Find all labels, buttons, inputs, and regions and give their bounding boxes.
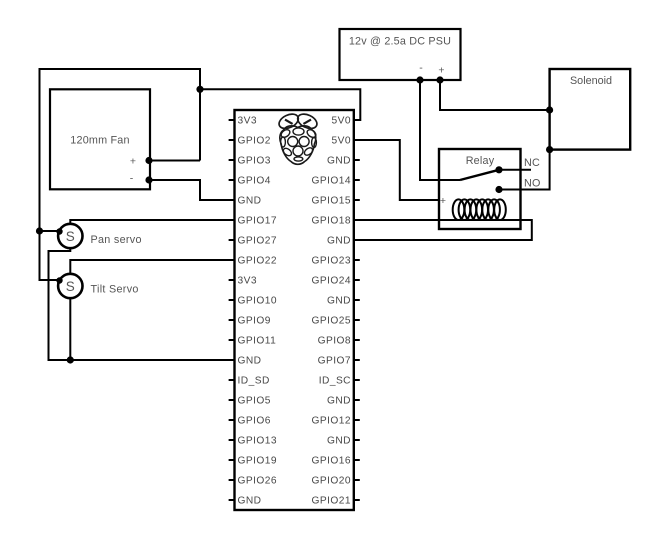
left pin stubs — [229, 120, 235, 500]
svg-text:GPIO19: GPIO19 — [238, 456, 278, 467]
svg-text:Relay: Relay — [466, 155, 495, 167]
svg-text:Tilt Servo: Tilt Servo — [91, 284, 139, 296]
svg-text:GND: GND — [327, 396, 351, 407]
right pin stubs — [354, 120, 360, 500]
junction fan minus — [145, 176, 152, 183]
Pan servo — [58, 224, 142, 248]
svg-text:GPIO5: GPIO5 — [238, 396, 271, 407]
svg-text:ID_SC: ID_SC — [319, 376, 351, 387]
svg-text:GPIO10: GPIO10 — [238, 296, 278, 307]
junction PSU plus — [436, 76, 443, 83]
wire 5V0 pin 2 to relay coil plus — [354, 140, 440, 200]
svg-text:GPIO2: GPIO2 — [238, 136, 271, 147]
svg-text:GND: GND — [238, 496, 262, 507]
junction PSU minus — [416, 76, 423, 83]
wire 5V net: fan+ up, across top, down left side to servos — [40, 69, 201, 280]
svg-text:S: S — [66, 229, 75, 244]
svg-text:GPIO20: GPIO20 — [311, 476, 351, 487]
svg-text:GPIO9: GPIO9 — [238, 316, 271, 327]
svg-text:GND: GND — [327, 156, 351, 167]
junction on left 5V wire — [36, 227, 43, 234]
Solenoid box — [550, 69, 631, 150]
svg-text:NC: NC — [524, 157, 540, 169]
relay switch lever — [460, 170, 499, 180]
svg-text:GND: GND — [238, 356, 262, 367]
raspberry pi logo — [277, 111, 319, 164]
wire PSU minus to relay common — [420, 80, 460, 180]
Tilt servo — [58, 274, 139, 298]
Relay box — [439, 149, 521, 229]
svg-text:GPIO22: GPIO22 — [238, 256, 278, 267]
wire fan plus to 5V net — [149, 160, 200, 162]
wire relay NO to solenoid bottom — [499, 150, 550, 190]
wire branch from 5V net to 5V0 pin 1 — [200, 89, 360, 120]
svg-text:+: + — [130, 155, 136, 167]
svg-text:GPIO23: GPIO23 — [311, 256, 351, 267]
wire Pan servo signal to GPIO17 — [70, 220, 234, 224]
relay coil — [453, 199, 506, 220]
svg-text:S: S — [66, 279, 75, 294]
svg-text:+: + — [440, 195, 446, 207]
svg-text:GPIO13: GPIO13 — [238, 436, 278, 447]
svg-text:5V0: 5V0 — [332, 136, 351, 147]
120mm Fan box — [50, 89, 150, 189]
wire Tilt servo signal to GPIO22 — [70, 260, 234, 274]
junction servo grounds — [67, 356, 74, 363]
svg-text:GPIO21: GPIO21 — [311, 496, 351, 507]
svg-text:3V3: 3V3 — [238, 276, 257, 287]
svg-text:-: - — [130, 173, 134, 185]
svg-text:GPIO11: GPIO11 — [238, 336, 277, 347]
wire GPIO18 through relay coil to GND — [354, 220, 532, 240]
wire relay NC stub — [499, 169, 531, 171]
svg-text:NO: NO — [524, 178, 541, 190]
svg-text:GPIO8: GPIO8 — [318, 336, 351, 347]
svg-text:GND: GND — [327, 236, 351, 247]
svg-text:GPIO16: GPIO16 — [311, 456, 351, 467]
svg-text:3V3: 3V3 — [238, 116, 257, 127]
svg-text:-: - — [419, 62, 423, 74]
svg-text:+: + — [438, 65, 444, 77]
junction 5V net top — [196, 86, 203, 93]
wire fan minus to GND pin — [149, 180, 235, 200]
svg-text:5V0: 5V0 — [332, 116, 351, 127]
wire Pan servo ground down left to GND — [49, 248, 235, 360]
wire PSU plus to solenoid — [440, 80, 550, 110]
svg-text:GND: GND — [327, 296, 351, 307]
svg-text:ID_SD: ID_SD — [238, 376, 270, 387]
Raspberry Pi GPIO block U1 — [235, 110, 354, 510]
relay NC contact — [495, 166, 502, 173]
svg-text:GPIO3: GPIO3 — [238, 156, 271, 167]
left pin labels — [238, 116, 278, 507]
svg-text:GPIO15: GPIO15 — [311, 196, 351, 207]
terminal dot Pan servo — [56, 228, 62, 234]
svg-text:GND: GND — [327, 436, 351, 447]
svg-text:GPIO27: GPIO27 — [238, 236, 278, 247]
svg-text:Pan servo: Pan servo — [91, 234, 142, 246]
svg-text:GND: GND — [238, 196, 262, 207]
right pin labels — [311, 116, 351, 507]
svg-text:120mm Fan: 120mm Fan — [70, 135, 129, 147]
svg-text:GPIO17: GPIO17 — [238, 216, 278, 227]
svg-text:GPIO24: GPIO24 — [311, 276, 351, 287]
relay NO contact — [495, 186, 502, 193]
junction fan plus — [145, 157, 152, 164]
terminal dot Tilt servo — [56, 277, 62, 283]
wire branch to Pan servo left terminal — [40, 230, 59, 232]
svg-text:GPIO18: GPIO18 — [311, 216, 351, 227]
svg-text:GPIO4: GPIO4 — [238, 176, 271, 187]
svg-text:12v @ 2.5a DC PSU: 12v @ 2.5a DC PSU — [349, 36, 451, 48]
svg-text:GPIO25: GPIO25 — [311, 316, 351, 327]
wire Tilt servo ground — [69, 298, 71, 360]
svg-text:GPIO14: GPIO14 — [311, 176, 351, 187]
svg-text:GPIO26: GPIO26 — [238, 476, 278, 487]
PSU box — [340, 29, 461, 80]
svg-text:GPIO12: GPIO12 — [311, 416, 351, 427]
junction solenoid plus terminal — [546, 106, 553, 113]
svg-text:GPIO7: GPIO7 — [318, 356, 351, 367]
junction solenoid bottom terminal — [546, 146, 553, 153]
svg-text:GPIO6: GPIO6 — [238, 416, 271, 427]
svg-text:Solenoid: Solenoid — [570, 75, 612, 87]
